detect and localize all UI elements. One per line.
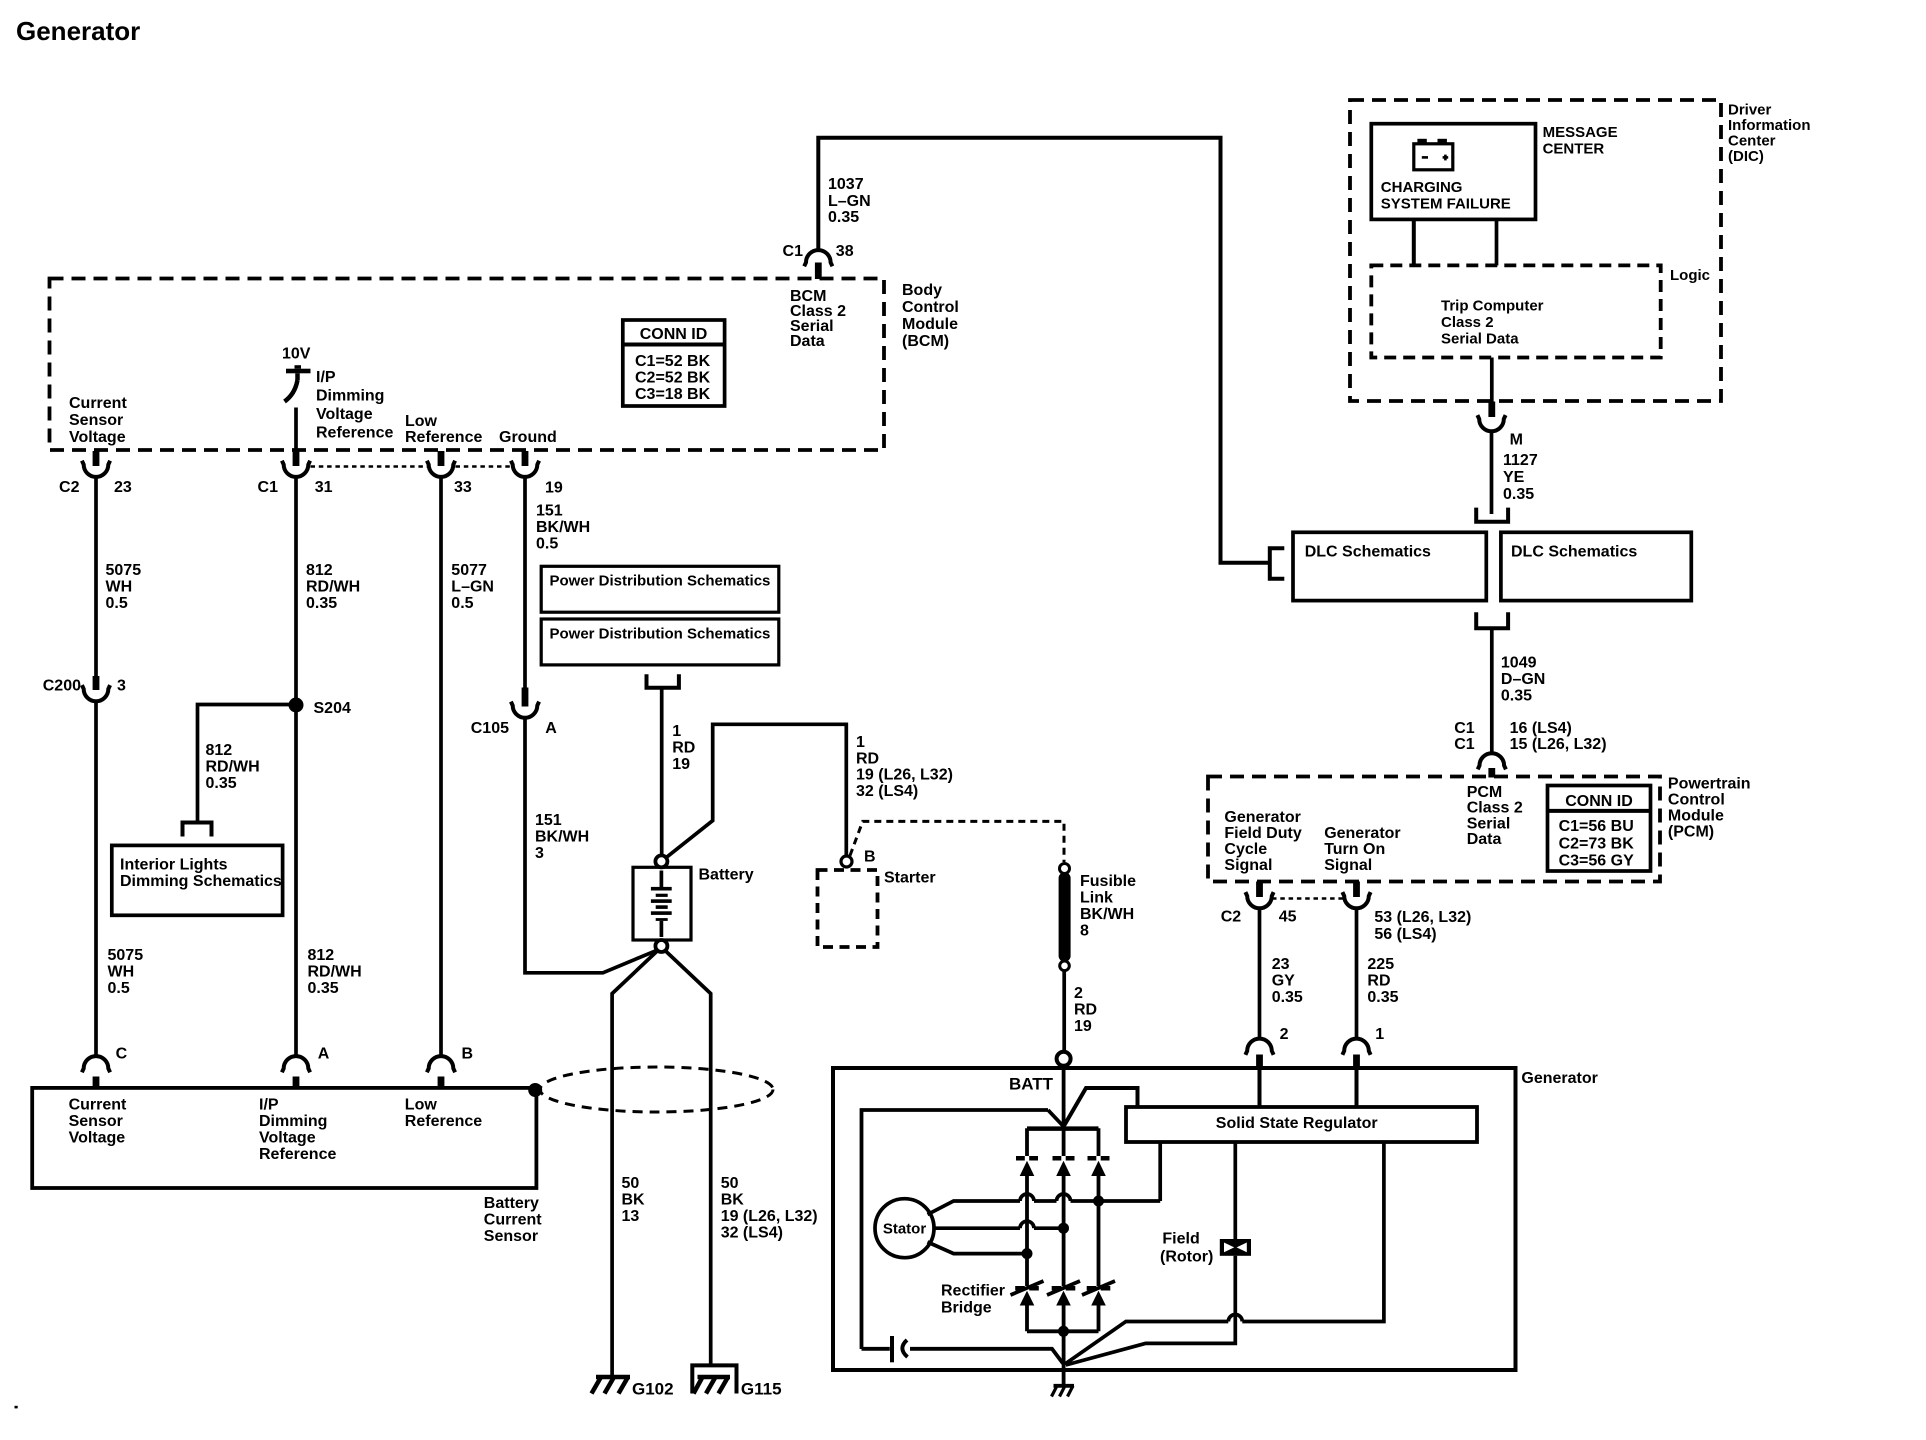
svg-text:19 (L26, L32): 19 (L26, L32) xyxy=(856,767,953,784)
svg-text:Power Distribution Schematics: Power Distribution Schematics xyxy=(550,573,771,590)
svg-text:Generator: Generator xyxy=(1324,825,1400,842)
connector C2 pin 23 (BCM bottom) xyxy=(82,451,110,477)
svg-text:0.5: 0.5 xyxy=(108,980,130,997)
off-page bracket above DLC xyxy=(1476,508,1508,522)
Generator box xyxy=(833,1068,1516,1370)
svg-text:Turn On: Turn On xyxy=(1324,841,1385,858)
svg-text:C: C xyxy=(116,1046,128,1063)
label Field (Rotor) xyxy=(1160,1231,1213,1266)
Battery Current Sensor box xyxy=(32,1088,536,1188)
rectifier branch 3 vertical xyxy=(1097,1128,1101,1331)
svg-text:(Rotor): (Rotor) xyxy=(1160,1249,1213,1266)
svg-text:Fusible: Fusible xyxy=(1080,873,1136,890)
wire 151 BK/WH lower segment to battery negative xyxy=(525,718,657,973)
svg-text:56 (LS4): 56 (LS4) xyxy=(1374,926,1436,943)
rectifier branch 1 vertical xyxy=(1025,1128,1029,1331)
label 5075 WH 0.5 (lower) xyxy=(108,947,144,997)
label C1 / C1 xyxy=(1454,720,1475,753)
connector pin C (sensor) xyxy=(82,1056,110,1088)
svg-text:C3=56 GY: C3=56 GY xyxy=(1559,853,1634,870)
svg-text:Reference: Reference xyxy=(405,1113,482,1130)
label 50 BK 19 (L26, L32) 32 (LS4) xyxy=(721,1175,818,1242)
fusible link BK/WH xyxy=(1059,864,1071,971)
svg-text:Low: Low xyxy=(405,413,438,430)
stray mark bottom-left xyxy=(15,1406,18,1409)
BATT terminal node on generator xyxy=(1057,1052,1071,1066)
junction dot at sensor box corner xyxy=(528,1083,542,1097)
junction dot branch 2 xyxy=(1058,1223,1069,1234)
battery negative terminal node xyxy=(655,940,667,952)
label Generator Turn On Signal xyxy=(1324,825,1400,874)
svg-text:1: 1 xyxy=(672,723,681,740)
off-page bracket below power distribution xyxy=(647,674,679,687)
stator phase wire 3 (to branch 1) xyxy=(928,1242,1028,1254)
svg-text:Generator: Generator xyxy=(1224,809,1300,826)
svg-text:3: 3 xyxy=(117,678,126,695)
svg-text:Voltage: Voltage xyxy=(69,429,126,446)
wire diagonal into BATT rail xyxy=(1048,1110,1064,1127)
battery xyxy=(633,867,691,940)
svg-text:Signal: Signal xyxy=(1324,857,1372,874)
harness loop dashed ellipse xyxy=(540,1067,773,1112)
wire charging box to logic (right) xyxy=(1495,219,1499,265)
svg-text:RD: RD xyxy=(1074,1002,1097,1019)
connector C1 pin 38 at BCM top xyxy=(804,250,832,279)
svg-text:151: 151 xyxy=(536,503,563,520)
svg-text:0.35: 0.35 xyxy=(1367,989,1398,1006)
wire 1037 L-GN serial data (BCM to DLC) xyxy=(818,138,1270,563)
svg-text:C1: C1 xyxy=(1454,720,1475,737)
off-page bracket below DLC xyxy=(1476,612,1508,628)
svg-text:Driver: Driver xyxy=(1728,102,1772,119)
svg-text:L–GN: L–GN xyxy=(451,579,494,596)
connector pin 1 (generator top) xyxy=(1342,1039,1370,1068)
field (rotor) winding symbol xyxy=(1220,1239,1251,1256)
label BCM Class 2 Serial Data xyxy=(790,288,846,350)
svg-text:RD/WH: RD/WH xyxy=(306,579,360,596)
svg-text:0.35: 0.35 xyxy=(1272,989,1303,1006)
ground G102 xyxy=(592,1377,631,1394)
svg-text:CONN ID: CONN ID xyxy=(1565,793,1633,810)
svg-text:Voltage: Voltage xyxy=(69,1130,126,1147)
wire S204 branch to interior lights xyxy=(198,705,297,823)
splice S204 xyxy=(289,698,304,713)
regulator right ground wire xyxy=(1065,1142,1384,1364)
svg-text:Reference: Reference xyxy=(316,425,393,442)
svg-text:Sensor: Sensor xyxy=(484,1228,538,1245)
BATT jog wire to regulator xyxy=(1064,1088,1138,1127)
svg-text:3: 3 xyxy=(535,845,544,862)
generator case ground xyxy=(1052,1386,1075,1397)
wire 50 BK (battery to G115) xyxy=(666,951,711,1365)
svg-text:CONN ID: CONN ID xyxy=(640,326,708,343)
svg-text:C1: C1 xyxy=(783,243,804,260)
svg-text:Dimming Schematics: Dimming Schematics xyxy=(120,873,282,890)
DLC Schematics box left xyxy=(1293,532,1486,600)
svg-text:1: 1 xyxy=(1375,1026,1384,1043)
svg-text:Module: Module xyxy=(1668,808,1724,825)
svg-text:16 (LS4): 16 (LS4) xyxy=(1510,720,1572,737)
svg-text:Low: Low xyxy=(405,1097,438,1114)
wire gen pin 1 to regulator xyxy=(1355,1068,1359,1107)
label CHARGING SYSTEM FAILURE xyxy=(1381,179,1511,213)
wire 225 RD 0.35 xyxy=(1355,908,1359,1039)
svg-text:Serial: Serial xyxy=(1467,815,1511,832)
svg-text:L–GN: L–GN xyxy=(828,193,871,210)
svg-text:50: 50 xyxy=(721,1175,739,1192)
svg-text:Module: Module xyxy=(902,316,958,333)
label Generator Field Duty Cycle Signal xyxy=(1224,809,1301,874)
svg-text:1037: 1037 xyxy=(828,176,864,193)
svg-text:GY: GY xyxy=(1272,973,1295,990)
svg-text:2: 2 xyxy=(1074,985,1083,1002)
wire gen pin 2 to regulator xyxy=(1258,1068,1262,1107)
svg-text:Current: Current xyxy=(69,1097,127,1114)
label 50 BK 13 xyxy=(622,1175,646,1225)
dashed connector link 33-19 xyxy=(456,465,512,468)
svg-text:0.35: 0.35 xyxy=(308,980,339,997)
svg-text:45: 45 xyxy=(1279,909,1297,926)
svg-text:Power Distribution Schematics: Power Distribution Schematics xyxy=(550,625,771,642)
junction dot bottom rail xyxy=(1058,1326,1069,1337)
svg-text:DLC Schematics: DLC Schematics xyxy=(1511,544,1637,561)
svg-text:Data: Data xyxy=(1467,831,1502,848)
wire 5077 L-GN (BCM 33 to sensor B) xyxy=(439,477,443,1057)
svg-text:Current: Current xyxy=(69,395,127,412)
svg-text:Class 2: Class 2 xyxy=(1441,314,1494,331)
wire 1049 D-GN (DLC to PCM) xyxy=(1490,628,1494,753)
stator phase wire 1 (to branch 3 and regulator) xyxy=(928,1142,1161,1215)
wire hop over branch 2 xyxy=(1057,1194,1071,1201)
label Driver Information Center (DIC) xyxy=(1728,102,1811,166)
svg-text:S204: S204 xyxy=(314,700,351,717)
starter terminal B node xyxy=(841,856,852,867)
svg-text:B: B xyxy=(864,849,876,866)
label 151 BK/WH 0.5 xyxy=(536,503,590,553)
svg-text:PCM: PCM xyxy=(1467,784,1503,801)
svg-text:19: 19 xyxy=(545,480,563,497)
dashed wire starter B to fusible link xyxy=(850,821,1064,862)
Interior Lights Dimming Schematics box xyxy=(112,845,283,915)
svg-text:WH: WH xyxy=(106,579,133,596)
connector C105 pin A xyxy=(511,688,539,718)
svg-text:Serial Data: Serial Data xyxy=(1441,331,1519,348)
10V supply tap symbol xyxy=(282,346,311,402)
capacitor xyxy=(892,1336,908,1362)
off-page bracket (interior lights) xyxy=(183,823,212,837)
capacitor wire left xyxy=(862,1347,890,1351)
svg-text:Logic: Logic xyxy=(1670,267,1710,284)
svg-text:Dimming: Dimming xyxy=(259,1113,327,1130)
svg-text:Interior Lights: Interior Lights xyxy=(120,857,228,874)
svg-text:Reference: Reference xyxy=(405,429,482,446)
connector M xyxy=(1477,402,1505,432)
svg-text:33: 33 xyxy=(454,479,472,496)
battery telltale icon xyxy=(1414,139,1453,170)
svg-text:Generator: Generator xyxy=(1521,1070,1597,1087)
svg-text:0.35: 0.35 xyxy=(206,775,237,792)
svg-text:50: 50 xyxy=(622,1175,640,1192)
diode D6 lower (avalanche) xyxy=(1082,1281,1115,1306)
CONN ID table (PCM) xyxy=(1548,786,1651,872)
svg-text:Information: Information xyxy=(1728,117,1811,134)
diode D1 upper xyxy=(1016,1156,1038,1176)
label Powertrain Control Module (PCM) xyxy=(1668,776,1751,841)
svg-text:G102: G102 xyxy=(632,1380,674,1399)
generator case ground wire xyxy=(1062,1362,1066,1386)
svg-text:5077: 5077 xyxy=(451,562,487,579)
label 1 RD 19 xyxy=(672,723,695,773)
junction dot branch 1 xyxy=(1022,1248,1033,1259)
label 812 RD/WH 0.35 (branch) xyxy=(206,742,260,792)
label Fusible Link BK/WH 8 xyxy=(1080,873,1136,940)
svg-text:53 (L26, L32): 53 (L26, L32) xyxy=(1374,909,1471,926)
battery positive terminal node xyxy=(655,855,667,867)
wire 5075 WH lower segment xyxy=(94,701,98,1056)
svg-text:Bridge: Bridge xyxy=(941,1300,992,1317)
svg-text:RD: RD xyxy=(1367,973,1390,990)
wire logic to connector M xyxy=(1490,358,1494,403)
svg-text:DLC Schematics: DLC Schematics xyxy=(1305,544,1431,561)
wire 23 GY 0.35 xyxy=(1258,908,1262,1039)
label 1 RD 19 (L26, L32) 32 (LS4) xyxy=(856,734,953,800)
connector pin 19 (BCM bottom) xyxy=(511,451,539,477)
svg-text:Ground: Ground xyxy=(499,429,557,446)
svg-text:C2: C2 xyxy=(59,479,80,496)
diode D2 upper xyxy=(1053,1156,1075,1176)
label Body Control Module (BCM) xyxy=(902,282,959,350)
Solid State Regulator box xyxy=(1126,1107,1477,1142)
connector C1 at PCM top xyxy=(1478,753,1506,777)
label Current Sensor Voltage (sensor) xyxy=(69,1097,127,1147)
svg-text:0.35: 0.35 xyxy=(1503,486,1534,503)
label 5075 WH 0.5 xyxy=(106,562,142,612)
BATT internal vertical wire xyxy=(1062,1066,1066,1362)
svg-text:C200: C200 xyxy=(43,678,81,695)
svg-text:C2=52 BK: C2=52 BK xyxy=(635,370,711,387)
svg-text:(DIC): (DIC) xyxy=(1728,148,1764,165)
svg-text:Battery: Battery xyxy=(484,1195,539,1212)
label 225 RD 0.35 xyxy=(1367,956,1398,1006)
label 23 GY 0.35 xyxy=(1272,956,1303,1006)
svg-text:CENTER: CENTER xyxy=(1543,141,1605,158)
diode D3 upper xyxy=(1088,1156,1110,1176)
connector C200 pin 3 xyxy=(82,676,110,701)
wire hop over field wire xyxy=(1228,1315,1242,1322)
svg-text:Field Duty: Field Duty xyxy=(1224,825,1301,842)
Starter dashed box xyxy=(818,870,878,947)
wire 2 RD 19 (fusible link to generator BATT) xyxy=(1062,971,1066,1052)
svg-text:19: 19 xyxy=(672,756,690,773)
svg-text:G115: G115 xyxy=(741,1380,782,1399)
Charging System Failure indicator box xyxy=(1371,124,1535,220)
label 1049 D-GN 0.35 xyxy=(1501,655,1545,705)
svg-text:Current: Current xyxy=(484,1212,542,1229)
wire 5075 WH upper segment xyxy=(94,477,98,677)
rectifier bottom rail xyxy=(1027,1329,1099,1333)
Power Distribution Schematics box 2 xyxy=(541,619,779,665)
coupling bracket into left DLC box xyxy=(1270,548,1285,579)
svg-text:BK: BK xyxy=(622,1192,646,1209)
field wire to ground node xyxy=(1066,1256,1236,1365)
svg-text:RD/WH: RD/WH xyxy=(308,964,362,981)
svg-text:(PCM): (PCM) xyxy=(1668,824,1714,841)
wire charging box to logic (left) xyxy=(1412,219,1416,265)
svg-text:38: 38 xyxy=(836,243,854,260)
label I/P Dimming Voltage Reference (BCM pin) xyxy=(316,369,393,442)
svg-text:BK: BK xyxy=(721,1192,745,1209)
svg-text:I/P: I/P xyxy=(316,369,336,386)
svg-text:1049: 1049 xyxy=(1501,655,1537,672)
svg-text:A: A xyxy=(545,720,557,737)
connector pin 53/56 (PCM bottom) xyxy=(1342,882,1370,909)
svg-text:C1=52 BK: C1=52 BK xyxy=(635,353,711,370)
dashed connector link 45-53 xyxy=(1272,897,1344,900)
svg-text:C1: C1 xyxy=(258,479,279,496)
svg-text:0.5: 0.5 xyxy=(106,595,128,612)
label Trip Computer Class 2 Serial Data xyxy=(1441,298,1544,348)
connector pin A (sensor) xyxy=(282,1056,310,1088)
svg-text:812: 812 xyxy=(206,742,233,759)
svg-text:2: 2 xyxy=(1280,1026,1289,1043)
svg-text:Solid State Regulator: Solid State Regulator xyxy=(1216,1115,1378,1132)
svg-text:Reference: Reference xyxy=(259,1146,336,1163)
svg-text:Sensor: Sensor xyxy=(69,412,123,429)
CONN ID table (BCM) xyxy=(623,320,725,406)
svg-text:SYSTEM FAILURE: SYSTEM FAILURE xyxy=(1381,196,1511,213)
svg-text:C1: C1 xyxy=(1454,736,1475,753)
svg-text:Stator: Stator xyxy=(883,1221,927,1238)
svg-text:YE: YE xyxy=(1503,469,1525,486)
svg-text:0.35: 0.35 xyxy=(306,595,337,612)
label 5077 L-GN 0.5 xyxy=(451,562,494,612)
svg-text:M: M xyxy=(1510,432,1523,449)
svg-text:C105: C105 xyxy=(471,720,509,737)
label M 1127 YE 0.35 xyxy=(1503,432,1538,504)
svg-text:15 (L26, L32): 15 (L26, L32) xyxy=(1510,736,1607,753)
stator phase wire 2 (to branch 2) xyxy=(934,1226,1064,1230)
svg-text:Control: Control xyxy=(1668,792,1725,809)
Logic dashed box xyxy=(1371,265,1660,357)
DLC Schematics box right xyxy=(1501,532,1691,600)
label Low Reference (BCM pin) xyxy=(405,413,482,446)
label Current Sensor Voltage (BCM pin) xyxy=(69,395,127,446)
svg-text:D–GN: D–GN xyxy=(1501,671,1545,688)
svg-text:CHARGING: CHARGING xyxy=(1381,179,1463,196)
svg-text:812: 812 xyxy=(306,562,333,579)
svg-text:0.35: 0.35 xyxy=(828,209,859,226)
svg-text:Sensor: Sensor xyxy=(69,1113,123,1130)
svg-text:225: 225 xyxy=(1367,956,1394,973)
svg-text:BK/WH: BK/WH xyxy=(535,829,589,846)
label 16 (LS4) / 15 (L26, L32) xyxy=(1510,720,1607,753)
stator xyxy=(875,1199,934,1258)
BCM dashed box (Body Control Module) xyxy=(50,279,885,451)
svg-text:Dimming: Dimming xyxy=(316,388,384,405)
svg-text:10V: 10V xyxy=(282,346,311,363)
connector pin 33 (BCM bottom) xyxy=(427,451,455,477)
svg-text:I/P: I/P xyxy=(259,1097,279,1114)
svg-text:Data: Data xyxy=(790,333,825,350)
rectifier top rail xyxy=(1027,1126,1099,1131)
DIC dashed box (Driver Information Center) xyxy=(1350,100,1721,401)
svg-text:151: 151 xyxy=(535,812,562,829)
capacitor wire right to ground node xyxy=(910,1349,1063,1364)
svg-text:0.5: 0.5 xyxy=(536,536,558,553)
svg-text:13: 13 xyxy=(622,1208,640,1225)
PCM dashed box (Powertrain Control Module) xyxy=(1208,777,1660,882)
svg-text:Signal: Signal xyxy=(1224,857,1272,874)
svg-text:1: 1 xyxy=(856,734,865,751)
svg-text:B: B xyxy=(462,1046,474,1063)
svg-text:Powertrain: Powertrain xyxy=(1668,776,1751,793)
svg-text:BATT: BATT xyxy=(1009,1075,1054,1094)
label MESSAGE CENTER xyxy=(1543,124,1618,158)
label Rectifier Bridge xyxy=(941,1283,1005,1317)
svg-text:Rectifier: Rectifier xyxy=(941,1283,1005,1300)
ground G115 xyxy=(694,1377,731,1394)
svg-text:(BCM): (BCM) xyxy=(902,333,949,350)
svg-text:8: 8 xyxy=(1080,923,1089,940)
svg-text:RD: RD xyxy=(856,750,879,767)
svg-text:BK/WH: BK/WH xyxy=(1080,906,1134,923)
generator left loop wire xyxy=(862,1110,1049,1349)
connector C1 pin 31 (BCM bottom) xyxy=(282,451,310,477)
connector C2 pin 45 (PCM bottom) xyxy=(1245,882,1273,909)
wire 10V to C1/31 xyxy=(294,408,298,452)
svg-text:BK/WH: BK/WH xyxy=(536,519,590,536)
label 151 BK/WH 3 xyxy=(535,812,589,862)
svg-text:Starter: Starter xyxy=(884,870,936,887)
wire 1 RD 19 (power distribution to battery) xyxy=(660,688,664,856)
svg-text:C2=73 BK: C2=73 BK xyxy=(1559,835,1635,852)
svg-text:31: 31 xyxy=(315,479,333,496)
label 812 RD/WH 0.35 (upper) xyxy=(306,562,360,612)
svg-text:0.35: 0.35 xyxy=(1501,688,1532,705)
battery B+ branch wire to starter xyxy=(666,724,846,857)
wire hop over branch 1 xyxy=(1020,1194,1034,1201)
svg-text:RD/WH: RD/WH xyxy=(206,759,260,776)
svg-text:Cycle: Cycle xyxy=(1224,841,1267,858)
wire M to DLC bracket xyxy=(1490,431,1494,514)
svg-text:C2: C2 xyxy=(1221,909,1242,926)
dashed connector link 31-33 xyxy=(311,465,428,468)
svg-text:Body: Body xyxy=(902,282,942,299)
label PCM Class 2 Serial Data xyxy=(1467,784,1523,848)
svg-text:19 (L26, L32): 19 (L26, L32) xyxy=(721,1208,818,1225)
svg-text:C3=18 BK: C3=18 BK xyxy=(635,386,711,403)
svg-text:WH: WH xyxy=(108,964,135,981)
junction dot branch 3 xyxy=(1093,1196,1104,1207)
connector pin B (sensor) xyxy=(427,1056,455,1088)
svg-text:Trip Computer: Trip Computer xyxy=(1441,298,1544,315)
svg-text:Link: Link xyxy=(1080,890,1113,907)
label I/P Dimming Voltage Reference (sensor) xyxy=(259,1097,336,1164)
ground G115 bracket xyxy=(692,1365,736,1393)
svg-text:19: 19 xyxy=(1074,1018,1092,1035)
svg-text:Voltage: Voltage xyxy=(259,1130,316,1147)
label 2 RD 19 xyxy=(1074,985,1097,1035)
svg-text:RD: RD xyxy=(672,740,695,757)
field rotor wire from regulator xyxy=(1233,1142,1237,1239)
svg-text:5075: 5075 xyxy=(106,562,142,579)
svg-text:Field: Field xyxy=(1162,1231,1199,1248)
wire 812 RD/WH (BCM C1/31 to sensor A) xyxy=(294,477,298,1057)
svg-text:812: 812 xyxy=(308,947,335,964)
svg-text:0.5: 0.5 xyxy=(451,595,473,612)
label Low Reference (sensor) xyxy=(405,1097,482,1131)
connector pin 2 (generator top) xyxy=(1245,1039,1273,1068)
